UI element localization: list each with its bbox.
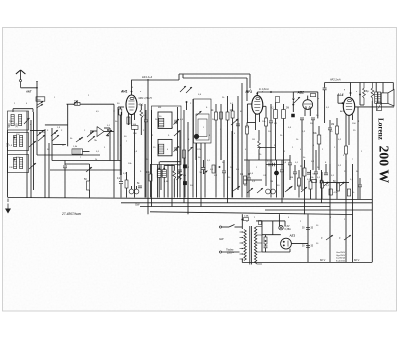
padding capacitor C14 — [178, 169, 182, 171]
band filter box 3 — [8, 155, 29, 173]
antenna series coil 300 — [36, 97, 45, 101]
gang condenser C — [266, 189, 271, 194]
resistor 4,5 — [329, 189, 332, 195]
resistor R9 10k — [226, 112, 229, 120]
IF transformer MF1 box — [152, 106, 182, 165]
tier2 switch — [29, 141, 36, 147]
wave switch S1 — [24, 118, 30, 124]
rectifier filament wires — [272, 221, 274, 235]
switch arrows det — [285, 187, 291, 192]
switch mid band — [287, 186, 293, 191]
output transformer coil a — [375, 92, 378, 103]
oscillator switch — [231, 119, 238, 125]
resistor R10 — [212, 165, 215, 173]
dial lamp — [279, 226, 283, 230]
svg-text:Ia=36mA: Ia=36mA — [336, 257, 345, 260]
volume potentiometer — [274, 171, 278, 175]
long vertical screen feed — [144, 104, 146, 198]
hum choke zigzag — [371, 83, 374, 102]
wire under caps — [360, 104, 364, 106]
electrolytic blob AB2 — [292, 114, 295, 117]
resistor R17 1k — [303, 168, 306, 176]
resistor R9c — [231, 111, 234, 118]
grid capacitor C5 — [63, 165, 67, 167]
AL4 screen wire — [357, 107, 359, 183]
het wire — [258, 147, 276, 149]
zigzag resistor pair — [173, 171, 176, 179]
svg-text:0,6A: 0,6A — [244, 215, 249, 218]
speaker wires — [375, 83, 377, 93]
bus line 3 — [140, 206, 330, 208]
svg-text:2M: 2M — [286, 108, 289, 110]
wave change switch S2a — [37, 130, 44, 136]
AL4 grid cap — [328, 127, 332, 129]
switch arrows volume — [247, 188, 253, 193]
mains switch — [222, 226, 229, 228]
label divider line — [371, 101, 373, 262]
svg-text:50,50: 50,50 — [267, 161, 273, 163]
MF2 pins — [255, 114, 257, 130]
antenna switch arrows — [37, 102, 44, 106]
tone control box — [377, 103, 382, 111]
junction dot — [219, 166, 221, 168]
capacitor C19 — [280, 169, 284, 171]
wire left block to bus — [7, 130, 9, 198]
svg-text:Ug=250V: Ug=250V — [336, 255, 346, 257]
MF1 primary box — [158, 112, 172, 129]
AB1 grid switches — [294, 97, 300, 103]
switch tone 2 — [344, 235, 351, 240]
junction dots mid — [248, 173, 250, 175]
capacitor C18 — [269, 120, 273, 122]
svg-text:1R: 1R — [252, 139, 255, 141]
detector diode load R14 — [274, 110, 278, 119]
transformer primary taps — [240, 231, 243, 233]
tube AL4 — [343, 97, 354, 115]
AL4 cathode resistor — [345, 146, 348, 154]
svg-text:60 V: 60 V — [320, 259, 325, 262]
wire to AB2 top — [307, 96, 309, 100]
AF coupling wire — [266, 164, 283, 166]
heater tap resistor — [259, 221, 262, 225]
ground — [7, 199, 9, 203]
svg-text:GW: GW — [135, 203, 140, 207]
HT vertical wires — [329, 164, 331, 262]
svg-text:ANT: ANT — [25, 89, 32, 93]
band switch arrows top — [180, 86, 186, 92]
svg-text:200 W: 200 W — [377, 146, 392, 184]
svg-text:0,38A: 0,38A — [285, 228, 292, 231]
tube MF2 AF7 — [252, 96, 263, 115]
MF1 primary trimmer — [174, 120, 176, 124]
wires to dial — [177, 107, 179, 198]
tube AB2 — [303, 100, 313, 110]
detector coupling wire — [257, 91, 293, 93]
coil L2b — [20, 136, 23, 147]
PSU bottom wire — [262, 251, 290, 253]
svg-text:g: g — [344, 89, 345, 91]
cap right band — [320, 180, 322, 184]
resistor R20 50 — [337, 183, 340, 191]
tone cap C35 — [358, 184, 362, 186]
fuse — [241, 214, 243, 229]
svg-text:GW: GW — [219, 237, 224, 241]
top coupling line HF — [132, 79, 180, 81]
MF1 secondary trimmer — [174, 147, 176, 151]
svg-text:HF2 2mA: HF2 2mA — [330, 79, 341, 82]
resistor 50k right — [317, 135, 321, 144]
capacitor C16 — [222, 170, 226, 172]
cap 0,1 with 50 — [307, 171, 311, 173]
dial wires — [204, 143, 206, 198]
AVC line — [52, 160, 121, 162]
capacitor C34 — [306, 245, 310, 247]
MF1 secondary box — [158, 139, 172, 155]
input band filter box L1 — [8, 111, 29, 130]
AH1 cathode zigzag resistor — [140, 110, 143, 118]
resistor R15 — [282, 110, 286, 119]
antenna terminal — [20, 80, 22, 82]
AVC line 2 — [50, 169, 121, 171]
resistor R18 — [309, 181, 312, 189]
electrolytic blobs — [183, 165, 186, 168]
osc box lines — [45, 124, 68, 126]
antenna lead — [20, 82, 22, 88]
bus line 2 — [121, 202, 372, 204]
coupling cap C15 — [202, 167, 206, 169]
coil L3b — [20, 158, 23, 169]
mains terminal L — [219, 226, 221, 228]
mains terminal N — [219, 251, 221, 253]
resistor R9b — [220, 112, 223, 119]
grid wire MF2 — [256, 92, 258, 96]
chassis bus — [8, 198, 372, 200]
resistor R6 10k — [149, 174, 152, 181]
anode feed AL4 — [350, 83, 352, 97]
resistor 1k right — [347, 189, 350, 196]
wire osc — [220, 104, 222, 160]
B+ rail top — [325, 82, 394, 84]
resistor R12 — [265, 118, 268, 126]
pickup symbol — [97, 127, 104, 137]
speaker return wire — [355, 106, 394, 108]
MF1 anode feed dot — [186, 101, 188, 103]
cap C7 — [293, 171, 297, 173]
IF step wires — [160, 161, 181, 163]
MF2 anode wire — [263, 105, 266, 107]
svg-text:AZ1: AZ1 — [289, 234, 296, 238]
cap C16b — [236, 123, 240, 125]
MF1 secondary coil — [159, 144, 164, 154]
wire AL4 grid — [338, 102, 343, 104]
svg-text:Lorenz: Lorenz — [377, 118, 385, 141]
tuning gang C1 — [129, 189, 134, 194]
capacitor C20 — [288, 162, 292, 164]
secondary taps — [257, 226, 262, 228]
AL4 pins — [345, 115, 347, 127]
svg-text:500: 500 — [8, 123, 11, 128]
mid right resistors — [321, 181, 324, 188]
wire top to MF2 — [241, 83, 243, 198]
switch near dial — [203, 171, 207, 174]
switch S2d — [87, 131, 94, 137]
svg-text:60 V: 60 V — [354, 259, 359, 262]
svg-text:2k: 2k — [95, 159, 97, 161]
transformer primary winding — [244, 230, 246, 261]
capacitor C22 — [314, 171, 318, 173]
AH1 screen resistor — [127, 117, 130, 124]
coupling coil 350 — [75, 102, 81, 105]
cathode bypass C10 — [119, 181, 123, 183]
pickup input verticals — [113, 110, 115, 198]
svg-text:HF1 2+4: HF1 2+4 — [142, 75, 153, 79]
capacitor C23 — [320, 180, 324, 182]
band filter box 2 — [8, 133, 29, 151]
left pickup wire — [30, 130, 45, 132]
AL4 grid resistor 1M — [336, 126, 339, 134]
IF coupling coil pair — [157, 170, 161, 178]
oscillator padder coil — [72, 149, 83, 154]
resistor R8 2k — [215, 112, 218, 120]
AB2 diode arrow — [292, 99, 295, 102]
switch S2c — [76, 137, 83, 142]
AB2 pins — [304, 109, 306, 116]
output transformer coil b — [378, 92, 381, 103]
bus line extra — [265, 209, 372, 211]
resistor box 30k — [310, 94, 315, 97]
grid blocking cap — [323, 87, 327, 89]
mains wire lower — [222, 251, 240, 253]
svg-text:Ik=40mA: Ik=40mA — [336, 259, 345, 262]
series caps 50 50 — [268, 163, 270, 167]
AH1 pins — [127, 114, 129, 126]
resistor R5 — [125, 180, 128, 188]
AH1 bias resistor 100 — [132, 126, 139, 130]
speaker cone — [388, 89, 394, 106]
rectifier smoothing components — [264, 237, 267, 244]
svg-text:1M: 1M — [270, 181, 273, 183]
speaker magnet — [381, 93, 388, 104]
tone feed line — [323, 182, 349, 184]
wave switch arrows mid — [233, 186, 240, 191]
pickup wires — [104, 131, 114, 133]
switch S2e — [86, 167, 92, 172]
svg-text:300: 300 — [16, 123, 19, 128]
AB1 grid resistor — [276, 97, 280, 103]
tube AH1 — [126, 95, 137, 115]
switch tone 1 — [326, 235, 333, 240]
wire osc section — [51, 128, 53, 161]
wire antenna to input — [21, 87, 37, 89]
AH1 left resistor — [119, 109, 122, 115]
zigzag R mid — [258, 141, 261, 150]
diode coupling caps — [300, 117, 304, 119]
rectifier tube AZ1 — [281, 238, 292, 249]
svg-text:Ua=250V: Ua=250V — [336, 252, 346, 254]
tuning gang C2 — [134, 189, 139, 194]
AB2 screen box — [293, 91, 318, 93]
capacitor C33 — [306, 227, 310, 229]
svg-text:MF1 1,5mH: MF1 1,5mH — [139, 97, 152, 100]
svg-text:1t 1,6mA: 1t 1,6mA — [259, 88, 269, 91]
tier3 switch — [29, 163, 36, 169]
resistor R11 70k — [246, 126, 249, 134]
top step box — [178, 74, 180, 80]
resistor R7 — [183, 150, 186, 158]
tone switch b — [340, 182, 345, 186]
wire AH1 anode — [118, 106, 124, 108]
wire input top — [13, 108, 33, 110]
dial trimmer — [197, 111, 202, 116]
MF1 primary coil — [159, 118, 164, 127]
rectifier anode wire — [262, 234, 281, 236]
svg-text:220V~: 220V~ — [226, 251, 235, 254]
horizontal het wire — [244, 159, 290, 161]
resistor R13 0.1 — [244, 176, 247, 184]
antenna — [20, 70, 22, 80]
pickup return vertical — [109, 128, 111, 161]
field coil zigzag — [363, 83, 366, 106]
MF2 grid loop — [247, 103, 251, 105]
AH1 grid leak — [144, 119, 148, 121]
wave change switch S2b — [51, 130, 58, 136]
tone switch a — [324, 182, 329, 186]
screen feed wire — [359, 83, 361, 106]
transformer core — [249, 226, 251, 265]
svg-text:AH1: AH1 — [120, 90, 128, 94]
svg-text:AL4: AL4 — [336, 93, 344, 97]
capacitor C12 — [138, 185, 142, 187]
rectifier output wire — [291, 243, 308, 245]
svg-text:g: g — [262, 91, 263, 93]
HT wire — [261, 221, 263, 252]
transformer secondary winding — [254, 227, 256, 264]
tuning indicator nested box — [194, 99, 212, 143]
coil L3a — [14, 158, 17, 169]
wire to AH1 grid region — [113, 104, 115, 112]
coil L1b — [19, 115, 22, 126]
coil L1a — [11, 115, 14, 126]
svg-text:1M: 1M — [290, 177, 293, 179]
input wire right — [67, 103, 75, 105]
wire R2 — [89, 190, 91, 198]
MF1 wires down — [157, 165, 159, 198]
coil L2a — [14, 136, 17, 147]
svg-text:1M: 1M — [331, 124, 334, 126]
bus line 4 heater — [150, 212, 353, 215]
grid cap wire — [131, 80, 133, 95]
bottom HT bus — [242, 262, 372, 264]
resistor R2 50k — [87, 181, 90, 190]
coupling switch — [73, 101, 78, 105]
MF1 mid trimmer arrows — [174, 131, 180, 137]
svg-text:27-4867/Iswo: 27-4867/Iswo — [61, 212, 81, 216]
svg-text:AB2: AB2 — [297, 91, 305, 95]
resistor R16 — [298, 178, 301, 186]
resistor 30k horizontal — [312, 180, 317, 183]
oscillator coil blob — [194, 134, 199, 139]
